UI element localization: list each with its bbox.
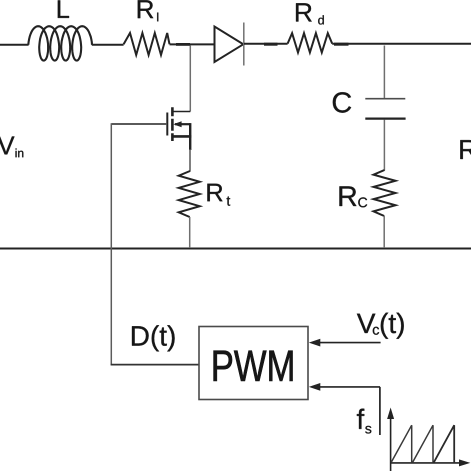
- label R_t main: [207, 184, 222, 202]
- wire D(t) horizontal into PWM: [111, 364, 199, 366]
- label R_l main: [138, 0, 154, 18]
- wire top rail left segment: [0, 44, 29, 46]
- sawtooth vertical axis: [390, 417, 392, 471]
- wire capacitor to R_C: [383, 120, 385, 171]
- wire source to R_t: [189, 149, 191, 172]
- label R load: [460, 140, 471, 159]
- capacitor C top plate: [365, 98, 405, 100]
- label D(t): [132, 325, 175, 351]
- sawtooth tooth 2: [413, 425, 433, 462]
- label V_c(t) main: [357, 314, 376, 333]
- label V_in main: [0, 137, 14, 155]
- label f_s subscript: [365, 426, 371, 434]
- wire drain junction vertical: [189, 46, 191, 112]
- bottom rail: [0, 248, 471, 250]
- wire coil to R_l: [92, 44, 124, 46]
- resistor R_t: [179, 171, 200, 217]
- label R_C main: [339, 186, 356, 206]
- wire Vc(t) arrow line: [319, 342, 381, 344]
- Q1 drain lead: [172, 111, 190, 113]
- label R_C subscript: [358, 197, 367, 207]
- sawtooth tooth 1: [391, 425, 412, 462]
- wire overlap mark after R_d: [334, 43, 349, 46]
- wire R_l to diode: [170, 43, 215, 45]
- wire diode to R_d: [244, 43, 288, 45]
- diode D1 triangle: [215, 27, 244, 63]
- label PWM: [214, 351, 293, 381]
- label R_d main: [296, 3, 312, 21]
- wire top rail to capacitor: [383, 46, 385, 99]
- wire R_C to bottom rail: [383, 216, 385, 248]
- resistor R_d: [288, 33, 333, 52]
- wire fs vertical: [379, 387, 381, 435]
- label V_in subscript: [16, 149, 24, 158]
- wire overlap mark after diode: [264, 43, 278, 46]
- sawtooth horizontal axis: [391, 462, 461, 464]
- label V_c(t) paren: [381, 313, 404, 339]
- label f_s main: [357, 409, 364, 429]
- wire R_d to right edge: [332, 43, 471, 45]
- PWM modulator block U1: [199, 327, 308, 400]
- Q1 source lead: [172, 135, 191, 138]
- resistor R_l: [124, 33, 170, 55]
- Q1 body arrowhead: [173, 121, 181, 127]
- transistor Q1 (MOSFET): [111, 107, 191, 150]
- wire D(t) vertical: [110, 123, 112, 364]
- Q1 gate wire: [111, 123, 166, 125]
- capacitor C bottom plate: [365, 117, 405, 119]
- resistor R_C: [374, 170, 396, 216]
- sawtooth tooth 3: [434, 425, 454, 462]
- Q1 body arrow line: [175, 123, 190, 125]
- Q1 channel bar segments: [171, 107, 174, 141]
- wire R_t to bottom rail: [189, 217, 191, 248]
- inductor L: [28, 26, 92, 60]
- diode D1 cathode bar: [243, 23, 245, 66]
- label R_l subscript: [157, 13, 158, 22]
- wire overlap mark before diode: [176, 43, 190, 46]
- label L: [58, 0, 69, 18]
- Vc(t) arrowhead into U1: [309, 339, 321, 347]
- fs arrowhead into U1: [309, 383, 321, 391]
- wire fs arrow line: [319, 386, 380, 388]
- sawtooth horizontal axis arrowhead: [459, 459, 470, 466]
- label C: [333, 92, 351, 113]
- Q1 source-body vertical: [189, 123, 191, 150]
- sawtooth vertical axis arrowhead: [387, 408, 394, 420]
- label R_t subscript: [227, 197, 231, 206]
- label V_c(t) subscript: [373, 327, 379, 335]
- Q1 gate bar: [166, 113, 168, 136]
- label R_d subscript: [318, 15, 324, 24]
